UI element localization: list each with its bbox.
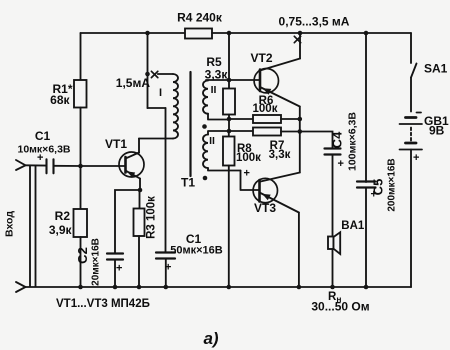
svg-text:+: + <box>244 168 250 180</box>
wire input to C1 <box>26 164 47 166</box>
wire R8 to ground rail (crosses base wire) <box>228 166 230 288</box>
svg-text:SA1: SA1 <box>424 62 448 76</box>
resistor R5 <box>223 89 235 115</box>
svg-text:VT1: VT1 <box>105 137 127 151</box>
svg-text:R4 240к: R4 240к <box>177 11 223 25</box>
node emitter junction <box>138 188 143 193</box>
svg-text:100к: 100к <box>253 103 278 115</box>
wire R5 to node A <box>228 115 230 120</box>
wire R2 to ground rail <box>80 237 82 287</box>
wire supply column x=147.5 <box>147 33 149 108</box>
wire VT1 base <box>81 165 126 167</box>
wire VT3 base step <box>241 171 260 191</box>
wire C2 to ground rail <box>114 260 116 288</box>
svg-text:3,3к: 3,3к <box>269 149 291 161</box>
wire VT3 emitter down <box>298 213 300 288</box>
wire emitter node to C2 <box>115 190 140 254</box>
capacitor C4 <box>325 149 341 155</box>
svg-text:C1: C1 <box>35 129 51 143</box>
resistor R7 <box>229 130 253 132</box>
svg-text:R2: R2 <box>55 209 71 223</box>
node junction top rail x=229 <box>227 31 232 36</box>
break symbol X 1,5mA <box>151 71 157 77</box>
svg-text:BA1: BA1 <box>341 220 365 232</box>
svg-text:II: II <box>209 135 215 147</box>
svg-text:100к: 100к <box>236 152 261 164</box>
wire R3 to ground rail <box>138 236 140 287</box>
svg-text:68к: 68к <box>50 93 70 107</box>
svg-text:+: + <box>37 152 43 164</box>
svg-text:VT3: VT3 <box>254 201 276 215</box>
wire C1 to base node <box>54 165 81 167</box>
capacitor C5 <box>357 182 376 188</box>
wire break to primary top <box>158 73 173 75</box>
svg-text:30...50 Ом: 30...50 Ом <box>311 300 369 314</box>
polarity dot secondary bottom <box>203 176 208 181</box>
node R6 right junction <box>298 117 303 122</box>
capacitor C1 <box>47 159 54 173</box>
transformer T1 primary winding I <box>173 74 178 138</box>
svg-text:200мк×16В: 200мк×16В <box>387 158 398 211</box>
resistor R6 <box>229 118 253 120</box>
wire VT1 collector up <box>138 139 140 153</box>
wire VT2 collector up <box>299 33 301 59</box>
svg-text:Вход: Вход <box>4 211 16 237</box>
capacitor C2 <box>107 254 123 260</box>
wire SA1 to GB1 <box>410 78 412 112</box>
wire secondary top lower lead <box>208 114 229 120</box>
wire GB1 to ground rail <box>410 150 412 288</box>
battery GB1 <box>406 116 417 119</box>
wire node to R5 <box>228 80 230 89</box>
transformer T1 secondary winding II top <box>203 81 208 114</box>
wire C4 to speaker <box>332 155 334 237</box>
wire input pair line 2 <box>35 166 37 287</box>
svg-text:20мк×16В: 20мк×16В <box>91 238 102 286</box>
capacitor C4 leads <box>300 132 333 149</box>
node junction top rail x=300 <box>298 31 303 36</box>
wire C1-50 to ground rail <box>165 259 167 288</box>
battery minus tick <box>417 112 422 114</box>
svg-text:C2: C2 <box>75 247 90 264</box>
node dots on ground rail <box>78 285 83 290</box>
wire secondary bottom upper lead <box>208 131 229 135</box>
wire base node to R2 <box>80 166 82 209</box>
wire VT1 emitter down <box>139 179 141 191</box>
wire R1 bottom to base node <box>80 108 82 167</box>
wire mid rail to VT3 collector <box>299 132 301 173</box>
resistor R1 <box>74 80 87 108</box>
wire emitter node to R3 <box>139 190 141 209</box>
wire R1 column top <box>80 33 82 80</box>
svg-text:9В: 9В <box>429 124 445 138</box>
svg-text:+: + <box>116 263 122 275</box>
node A <box>227 117 232 122</box>
resistor R2 <box>74 209 88 237</box>
node junction top rail x=147.5 <box>145 31 150 36</box>
svg-text:50мк×16В: 50мк×16В <box>170 245 223 257</box>
wire supply step <box>148 107 166 109</box>
wire C5 to ground rail <box>365 188 367 287</box>
wire collector to primary bottom <box>139 138 173 140</box>
wire top rail right segment <box>212 32 411 34</box>
node base junction dot <box>78 164 83 169</box>
svg-text:II: II <box>211 84 217 96</box>
resistor R3 <box>134 209 145 237</box>
wire ground rail <box>26 286 412 288</box>
wire SA1 top <box>410 33 412 63</box>
svg-text:3,3к: 3,3к <box>205 68 229 82</box>
transformer T1 core <box>189 72 191 176</box>
input terminal top <box>16 160 26 170</box>
svg-text:3,9к: 3,9к <box>49 223 73 237</box>
svg-text:Т1: Т1 <box>181 176 195 190</box>
wire rail to VT2 base node <box>228 33 230 80</box>
svg-text:а): а) <box>203 329 218 348</box>
svg-text:VT2: VT2 <box>251 51 273 65</box>
node dot break point <box>145 72 150 77</box>
capacitor C1 (50mk) <box>156 253 175 259</box>
wire node A to node B <box>228 119 230 131</box>
svg-text:VT1...VT3 МП42Б: VT1...VT3 МП42Б <box>56 298 150 310</box>
node junction top rail x=366 <box>364 31 369 36</box>
switch SA1 lever <box>411 64 417 78</box>
loudspeaker BA1 <box>328 237 334 250</box>
wire node B to R8 <box>228 131 230 137</box>
svg-text:I: I <box>159 87 162 99</box>
break symbol X 0,75-3,5mA <box>294 36 300 42</box>
wire C5 top <box>365 33 367 182</box>
input terminal bottom <box>16 282 26 292</box>
wire BA1 to ground rail <box>332 249 334 287</box>
svg-text:+: + <box>165 262 171 274</box>
wire top rail left segment <box>81 32 186 34</box>
resistor R4 <box>185 29 212 39</box>
wire secondary bottom lower lead <box>208 168 241 171</box>
node VT2 base junction <box>227 78 232 83</box>
svg-text:C4: C4 <box>330 131 345 148</box>
wire step down to C1-50 (crosses collector wire) <box>165 108 167 253</box>
node B <box>227 129 232 134</box>
transistor VT2 <box>254 69 278 93</box>
svg-text:+: + <box>338 158 344 170</box>
wire VT2 emitter down <box>299 107 301 120</box>
svg-text:10мк×6,3В: 10мк×6,3В <box>17 144 70 156</box>
svg-text:1,5мА: 1,5мА <box>116 76 151 90</box>
transistor VT3 <box>253 178 277 202</box>
transistor VT1 <box>119 152 144 177</box>
svg-text:R3 100к: R3 100к <box>146 196 158 239</box>
transformer T1 secondary winding II bottom <box>203 135 208 169</box>
wire secondary top upper lead <box>206 79 260 81</box>
polarity dot secondary mid <box>202 124 207 129</box>
svg-text:+: + <box>413 152 419 164</box>
wire input pair line 1 <box>29 166 31 287</box>
svg-text:+: + <box>371 189 377 201</box>
node R7/C4 junction <box>298 129 303 134</box>
svg-text:100мк×6,3В: 100мк×6,3В <box>347 112 359 171</box>
wire mid rail <box>299 119 301 132</box>
resistor R8 <box>223 137 235 166</box>
svg-text:0,75...3,5 мА: 0,75...3,5 мА <box>279 15 350 29</box>
